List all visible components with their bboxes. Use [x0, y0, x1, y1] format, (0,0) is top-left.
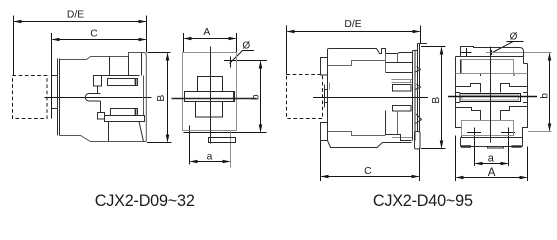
- svg-text:C: C: [364, 166, 372, 177]
- svg-text:CJX2-D09~32: CJX2-D09~32: [95, 192, 195, 210]
- svg-text:C: C: [90, 29, 98, 40]
- svg-text:b: b: [251, 94, 262, 100]
- svg-text:B: B: [156, 95, 167, 102]
- svg-text:Ø: Ø: [510, 31, 518, 42]
- svg-text:D/E: D/E: [67, 10, 84, 21]
- svg-text:Ø: Ø: [242, 40, 250, 51]
- svg-text:a: a: [207, 151, 213, 162]
- svg-text:A: A: [203, 27, 210, 38]
- svg-text:A: A: [488, 167, 496, 179]
- svg-text:a: a: [488, 152, 495, 164]
- svg-text:b: b: [540, 93, 551, 99]
- svg-text:B: B: [431, 97, 442, 104]
- svg-text:CJX2-D40~95: CJX2-D40~95: [373, 192, 473, 210]
- svg-text:D/E: D/E: [344, 19, 361, 30]
